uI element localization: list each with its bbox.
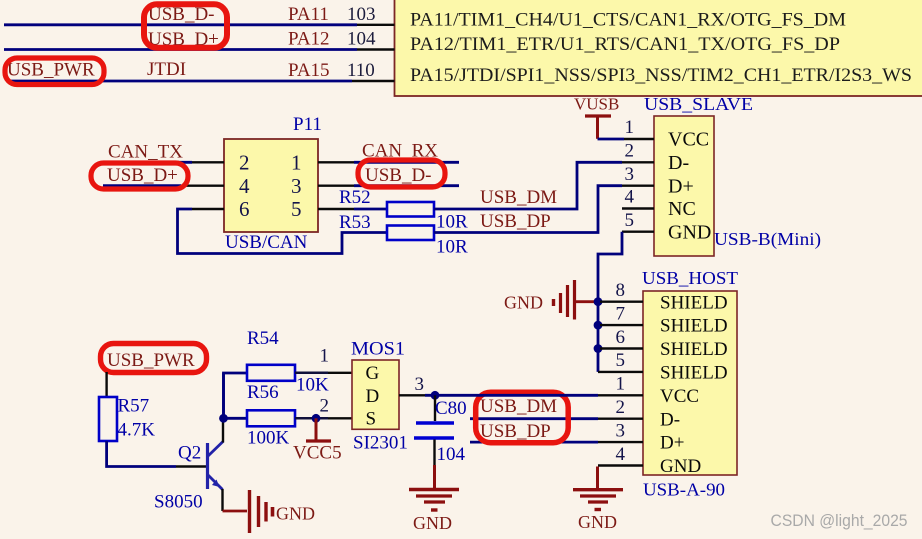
pin P11-6 [192, 208, 224, 210]
svg-text:VUSB: VUSB [574, 95, 619, 114]
net label USB_DP (host) [480, 421, 551, 442]
svg-text:C80: C80 [435, 398, 467, 419]
transistor Q2 [154, 442, 223, 513]
svg-text:USB_DP: USB_DP [480, 211, 551, 232]
svg-text:SHIELD: SHIELD [660, 292, 728, 313]
wire R54 to MOS1 G [295, 372, 328, 375]
svg-text:USB_PWR: USB_PWR [107, 350, 195, 371]
wire USB_D- (right) [354, 184, 459, 187]
svg-text:103: 103 [347, 4, 376, 25]
annotation red box around USB_D-/USB_D+ [144, 4, 227, 48]
annotation red box around USB_PWR (top) [5, 58, 104, 85]
wire USB_DP to USB_HOST D+ [470, 441, 598, 444]
svg-text:D: D [366, 386, 380, 407]
svg-text:PA11/TIM1_CH4/U1_CTS/CAN1_RX/O: PA11/TIM1_CH4/U1_CTS/CAN1_RX/OTG_FS_DM [410, 10, 846, 31]
annotation red box around USB_D- (right) [358, 160, 445, 187]
svg-text:4: 4 [239, 174, 250, 198]
pin USB_SLAVE 5 [622, 210, 654, 232]
pin USB_HOST 1 [598, 374, 643, 396]
svg-text:3: 3 [415, 374, 425, 395]
svg-text:1: 1 [616, 374, 626, 395]
svg-text:VCC: VCC [668, 129, 709, 151]
wire USB_SLAVE GND to shield bus [598, 232, 622, 372]
pin USB_HOST 7 [600, 303, 643, 325]
svg-text:MOS1: MOS1 [351, 339, 405, 360]
svg-text:SHIELD: SHIELD [660, 363, 728, 384]
svg-text:D-: D- [668, 152, 689, 174]
net label USB_D- (right) [365, 165, 432, 186]
net label USB_D+ (left) [107, 165, 178, 186]
svg-text:USB_D-: USB_D- [365, 165, 432, 186]
svg-text:USB_DM: USB_DM [480, 396, 557, 417]
wire vertical to R56 [222, 373, 225, 418]
pin P11-2 [192, 161, 224, 163]
svg-text:USB_PWR: USB_PWR [7, 60, 95, 81]
pin USB_HOST 4 [598, 444, 643, 466]
annotation red box around USB_PWR (bottom) [101, 344, 207, 373]
svg-text:USB-A-90: USB-A-90 [643, 480, 725, 500]
svg-text:PA12: PA12 [288, 29, 330, 50]
annotation red box around USB_D+ (left) [91, 163, 188, 189]
net label CAN_TX [108, 142, 183, 163]
svg-text:SHIELD: SHIELD [660, 339, 728, 360]
svg-text:GND: GND [668, 221, 711, 243]
svg-text:USB_DM: USB_DM [480, 187, 557, 208]
svg-text:2: 2 [239, 151, 250, 175]
wire PA15 row [10, 80, 352, 83]
wire Q2 collector up [224, 373, 248, 418]
svg-text:USB_SLAVE: USB_SLAVE [644, 94, 753, 114]
svg-text:5: 5 [616, 350, 626, 371]
svg-text:4: 4 [625, 187, 635, 208]
pin USB_HOST 3 [598, 420, 643, 442]
pin MOS1 1 [320, 346, 353, 373]
pin PA15 110 [288, 60, 395, 81]
net label USB_DM [480, 187, 557, 208]
svg-text:104: 104 [437, 444, 466, 465]
pin PA11 103 [288, 4, 395, 25]
junction at VCC5 [312, 414, 321, 423]
svg-text:GND: GND [578, 512, 617, 532]
net label USB_D- (top) [148, 4, 215, 25]
svg-text:2: 2 [616, 397, 626, 418]
svg-text:GND: GND [276, 504, 315, 524]
svg-text:1: 1 [320, 346, 330, 367]
net label USB_D+ (top) [148, 29, 219, 50]
power VCC5 [293, 418, 342, 463]
net label USB_PWR (top) [7, 60, 95, 81]
pin USB_HOST 5 [598, 350, 643, 372]
ground GND (shield, chassis style) [504, 280, 598, 320]
svg-text:GND: GND [504, 293, 543, 313]
svg-text:3: 3 [291, 174, 302, 198]
ground GND (Q2 emitter, chassis style) [223, 490, 316, 533]
net label CAN_RX [362, 141, 438, 162]
svg-text:P11: P11 [293, 114, 322, 135]
svg-text:R57: R57 [118, 396, 150, 417]
pin USB_SLAVE 1 [624, 117, 654, 139]
svg-text:PA15: PA15 [288, 60, 330, 81]
svg-text:D+: D+ [660, 433, 684, 454]
capacitor C80 [414, 395, 467, 465]
ground GND (USB-A-90, earth style) [573, 467, 623, 533]
wire CAN_RX [354, 161, 459, 164]
net label JTDI [147, 59, 186, 80]
svg-text:2: 2 [320, 396, 330, 417]
resistor R52 [339, 187, 468, 233]
svg-text:R53: R53 [339, 212, 371, 233]
svg-text:10K: 10K [296, 375, 329, 396]
svg-text:VCC5: VCC5 [293, 443, 342, 464]
power VUSB [574, 95, 619, 139]
wire PA12 row [4, 48, 357, 51]
connector USB_HOST [642, 268, 738, 500]
pin MOS1 3 [399, 374, 425, 395]
pin P11-4 [181, 184, 224, 186]
svg-text:10R: 10R [436, 237, 468, 258]
resistor R56 [247, 382, 295, 449]
MCU port box U1 [395, 0, 922, 96]
svg-text:1: 1 [625, 117, 635, 138]
pin USB_HOST 6 [600, 327, 643, 349]
svg-text:PA12/TIM1_ETR/U1_RTS/CAN1_TX/O: PA12/TIM1_ETR/U1_RTS/CAN1_TX/OTG_FS_DP [410, 34, 840, 55]
svg-text:5: 5 [625, 210, 635, 231]
pin P11-3 [318, 184, 354, 186]
connector USB_SLAVE [644, 94, 821, 256]
wire USB_D+ (left) [103, 184, 181, 187]
junction at shield pin 7 [594, 321, 603, 330]
resistor R57 [99, 396, 155, 442]
junction at R56 row [219, 414, 228, 423]
wire USB_DM (from R52 to USB_SLAVE D-) [434, 162, 622, 209]
pin Q2 base stub [176, 465, 206, 467]
svg-text:2: 2 [625, 141, 635, 162]
svg-text:4: 4 [616, 444, 626, 465]
svg-text:SHIELD: SHIELD [660, 316, 728, 337]
svg-text:5: 5 [291, 197, 302, 221]
svg-text:GND: GND [413, 513, 452, 533]
wire P11-6 to R53 [178, 209, 388, 254]
pin PA12 104 [288, 29, 395, 50]
wire USB_PWR to R57 [105, 372, 107, 397]
svg-text:S: S [366, 409, 377, 430]
svg-text:R52: R52 [339, 187, 371, 208]
svg-text:USB_HOST: USB_HOST [642, 268, 738, 288]
svg-text:1: 1 [291, 151, 302, 175]
wire P11-5 to R52 [354, 208, 387, 211]
wire PA11 row [4, 23, 357, 26]
wire MOS1 D to USB_HOST VCC [425, 394, 598, 397]
wire USB_DP (from R53 to USB_SLAVE D+) [434, 186, 622, 233]
svg-text:USB_DP: USB_DP [480, 421, 551, 442]
wire VUSB to USB_SLAVE pin1 [598, 138, 625, 141]
junction at shield pin 6 [594, 344, 603, 353]
svg-text:CAN_TX: CAN_TX [108, 142, 183, 163]
svg-text:8: 8 [616, 280, 626, 301]
svg-text:SI2301: SI2301 [353, 433, 408, 454]
wire R57 to Q2 base [107, 441, 176, 467]
watermark [771, 511, 908, 530]
wire R56 left [224, 417, 248, 420]
connector P11 [224, 114, 322, 253]
svg-text:D+: D+ [668, 176, 694, 198]
svg-text:USB_D+: USB_D+ [107, 165, 178, 186]
svg-text:6: 6 [239, 197, 250, 221]
svg-text:R56: R56 [247, 382, 279, 403]
svg-text:3: 3 [625, 164, 635, 185]
net label USB_PWR (bottom) [107, 350, 195, 371]
svg-text:Q2: Q2 [178, 443, 201, 464]
svg-text:JTDI: JTDI [147, 59, 186, 80]
wire CAN_TX [101, 161, 192, 164]
pin USB_SLAVE 4 [622, 187, 654, 209]
svg-text:4.7K: 4.7K [118, 420, 156, 441]
resistor R53 [339, 212, 468, 258]
wire R56 to MOS1 S [295, 417, 328, 420]
pin USB_SLAVE 3 [622, 164, 654, 186]
svg-text:S8050: S8050 [154, 492, 203, 513]
svg-text:110: 110 [347, 60, 375, 81]
pin USB_HOST 2 [598, 397, 643, 419]
annotation red box around USB_DM/USB_DP [476, 392, 569, 443]
svg-text:PA15/JTDI/SPI1_NSS/SPI3_NSS/TI: PA15/JTDI/SPI1_NSS/SPI3_NSS/TIM2_CH1_ETR… [410, 65, 912, 86]
pin P11-1 [318, 161, 354, 163]
svg-text:USB-B(Mini): USB-B(Mini) [714, 229, 821, 250]
junction at shield pin 8 [594, 297, 603, 306]
svg-text:G: G [366, 363, 380, 384]
svg-text:CSDN @light_2025: CSDN @light_2025 [771, 511, 908, 530]
wire Q2 emitter down [221, 489, 223, 511]
pin MOS1 2 [320, 396, 353, 419]
net label USB_DM (host) [480, 396, 557, 417]
svg-text:NC: NC [668, 198, 696, 220]
pin USB_SLAVE 2 [622, 141, 654, 163]
svg-text:R54: R54 [247, 328, 279, 349]
svg-text:PA11: PA11 [288, 4, 329, 25]
svg-text:3: 3 [616, 420, 626, 441]
pin USB_HOST 8 [600, 280, 643, 302]
ground GND (C80, earth style) [409, 465, 459, 533]
svg-text:6: 6 [616, 327, 626, 348]
pin P11-5 [318, 208, 354, 210]
svg-text:10R: 10R [436, 212, 468, 233]
svg-text:GND: GND [660, 456, 701, 477]
svg-text:USB/CAN: USB/CAN [225, 232, 308, 253]
wire USB_DM to USB_HOST D- [470, 417, 598, 420]
svg-text:D-: D- [660, 409, 680, 430]
junction at C80 [431, 391, 440, 400]
svg-text:104: 104 [347, 29, 376, 50]
svg-text:100K: 100K [247, 428, 290, 449]
svg-text:VCC: VCC [660, 386, 699, 407]
resistor R54 [247, 328, 329, 396]
net label USB_DP [480, 211, 551, 232]
mosfet MOS1 [351, 339, 408, 454]
svg-text:7: 7 [616, 303, 626, 324]
pin Q2 collector stub [222, 418, 224, 442]
